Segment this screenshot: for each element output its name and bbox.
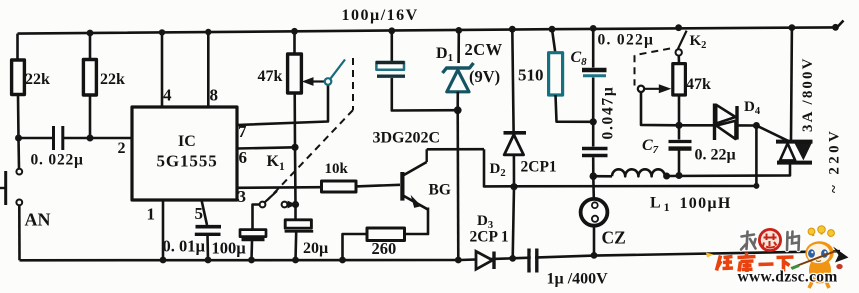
node contact circle wiper RP2	[638, 86, 644, 92]
node junction CZ ground	[591, 252, 598, 259]
wire 10k to base	[356, 185, 400, 187]
wire capacitor to IC pin 2	[63, 137, 132, 140]
diac D4	[715, 104, 738, 141]
wire C7 bottom to L1 wire	[678, 151, 681, 176]
switch K1 contacts and arm	[260, 191, 296, 208]
watermark red badge with xin	[758, 228, 782, 252]
node junction pin2 net left	[15, 135, 22, 142]
wire dashed mechanical link diagonal	[268, 110, 354, 200]
svg-text:47k: 47k	[686, 76, 711, 93]
node junction C7 L1 wire	[676, 172, 683, 179]
svg-text:3A /800V: 3A /800V	[800, 56, 816, 132]
capacitor C7 0.22u plates	[669, 142, 692, 149]
capacitor 100u timing plates	[240, 230, 266, 240]
node junction K2 rail	[675, 24, 682, 31]
wire 510 bottom to C8 column	[556, 95, 594, 122]
svg-text:10k: 10k	[325, 161, 349, 177]
wire CZ top lead	[592, 176, 595, 199]
node junction CZ L1	[590, 172, 598, 180]
inductor L1 100uH coil	[612, 169, 665, 176]
svg-text:1µ /400V: 1µ /400V	[547, 271, 609, 288]
potentiometer RP2 47k body	[673, 64, 686, 95]
watermark logo dzsc	[706, 226, 849, 288]
svg-text:2CP1: 2CP1	[521, 159, 557, 176]
wire CZ bottom lead	[593, 226, 596, 256]
wire R1 bottom to node	[17, 95, 20, 139]
node junction pin1 ground	[160, 257, 167, 264]
node junction pot C7 diac	[675, 122, 682, 129]
wire pin 6 to timing node	[237, 147, 295, 148]
svg-text:2CW: 2CW	[465, 40, 503, 59]
wire R2 bottom lead	[89, 95, 92, 138]
diode D1 zener 2CW	[443, 63, 474, 92]
node junction filter cap top rail	[388, 27, 395, 34]
resistor R5 260 body	[367, 228, 405, 241]
wire 100u to ground	[250, 241, 253, 260]
node junction zener bottom	[454, 106, 462, 114]
wire wiper down to C7 node	[641, 92, 679, 125]
capacitor 1u/400V plates	[529, 249, 537, 273]
svg-text:0. 01µ: 0. 01µ	[163, 237, 206, 256]
wire filter cap top lead	[390, 31, 393, 62]
svg-text:CZ: CZ	[602, 228, 626, 248]
wire pin 7 to pot wiper column	[237, 85, 328, 125]
svg-text:100µ: 100µ	[212, 239, 247, 258]
node junction D2 ground rail	[509, 255, 516, 262]
socket CZ	[581, 199, 608, 226]
svg-text:0. 022µ: 0. 022µ	[598, 32, 655, 49]
wire D1 top lead	[457, 30, 460, 63]
node junction 510 C8	[590, 118, 597, 125]
wire 260 to ground	[343, 234, 368, 260]
wire D2 cathode to rail	[512, 29, 513, 131]
node terminal ~220V top right	[832, 21, 843, 31]
svg-text:(9V): (9V)	[469, 67, 500, 86]
node junction R2 top	[87, 30, 94, 37]
potentiometer RP1 47k body	[288, 54, 302, 93]
svg-text:5: 5	[195, 204, 204, 223]
node junction 100u ground	[248, 257, 255, 264]
svg-text:www.dzsc.com: www.dzsc.com	[738, 269, 838, 286]
svg-text:260: 260	[372, 239, 397, 258]
svg-text:3: 3	[238, 187, 247, 206]
svg-text:AN: AN	[25, 210, 51, 230]
svg-text:4: 4	[163, 86, 172, 105]
wire collector to right	[427, 148, 484, 151]
node junction D2 top rail	[509, 26, 516, 33]
svg-text:0. 022µ: 0. 022µ	[31, 152, 84, 169]
node junction R2 pin2 wire	[87, 135, 94, 142]
svg-text:8: 8	[210, 86, 219, 105]
node junction K1 timing column	[292, 201, 299, 208]
svg-text:~ 220V: ~ 220V	[827, 128, 843, 193]
wire pin 8 to rail	[207, 32, 210, 107]
svg-text:100µ/16V: 100µ/16V	[342, 7, 419, 24]
node junction 0.01u ground	[205, 257, 212, 264]
watermark red text weikuyixia	[717, 253, 794, 273]
node junction 260 ground	[339, 257, 346, 264]
wire 20u to ground	[294, 232, 297, 260]
node junction pot top rail	[291, 28, 298, 35]
svg-text:47k: 47k	[258, 68, 283, 85]
wire triac top lead	[790, 28, 794, 140]
capacitor C8 plates	[582, 70, 607, 76]
capacitor 0.047u plates	[582, 149, 608, 156]
wire L1 to triac MT	[667, 164, 790, 176]
wire collector long run to gate column	[484, 126, 756, 187]
wire top supply rail	[18, 27, 834, 33]
node junction L1 right	[663, 173, 670, 180]
wire D2 anode down	[513, 155, 514, 259]
resistor R1 22k body	[12, 60, 25, 95]
node junction zener column ground	[455, 257, 462, 264]
wire C8 top lead	[592, 28, 595, 67]
capacitor 0.01u plates	[195, 227, 221, 235]
svg-text:BG: BG	[429, 182, 451, 199]
svg-text:510: 510	[518, 66, 544, 85]
node contact circle wiper K1b	[325, 78, 332, 85]
node junction pin4 rail	[159, 29, 165, 35]
svg-text:22k: 22k	[25, 71, 50, 88]
wire L1 left lead	[593, 175, 612, 178]
svg-text:IC: IC	[178, 133, 196, 150]
node junction pin6 timing node	[291, 144, 298, 151]
capacitor C2 100u/16V plates	[376, 62, 405, 76]
node junction triac rail	[789, 24, 796, 31]
potentiometer RP2 wiper arrow	[644, 84, 671, 93]
node junction D2 gate wire	[510, 183, 517, 190]
node junction C8 top rail	[590, 25, 597, 32]
watermark text pian (piece)	[787, 232, 799, 251]
svg-text:0.047µ: 0.047µ	[600, 85, 617, 139]
wire 510 top lead	[552, 29, 555, 53]
wire diac to gate node	[737, 124, 756, 127]
wire pin 4 to rail	[161, 32, 164, 107]
wire pin 1 to ground	[162, 200, 165, 260]
wire K1b arm (teal)	[330, 60, 345, 79]
wire node to capacitor C 0.022u	[19, 137, 53, 140]
capacitor 20u plates	[285, 220, 314, 232]
wire emitter down to 260	[405, 208, 429, 235]
wire K1 node to cap 20u	[294, 205, 297, 220]
wire 0.047u bottom to CZ node	[592, 157, 595, 176]
node junction 20u ground	[292, 257, 299, 264]
capacitor C1 0.022u plates	[54, 126, 63, 150]
diode D2 2CP1	[504, 133, 527, 155]
svg-text:2CP 1: 2CP 1	[470, 229, 509, 246]
watermark text zhao (find)	[741, 232, 756, 250]
wire pin 5 down	[202, 200, 208, 225]
node junction 510 top rail	[549, 26, 556, 33]
svg-text:22k: 22k	[100, 71, 125, 88]
watermark mascot	[706, 226, 849, 288]
wire K2 to pot top	[677, 56, 680, 64]
svg-text:1: 1	[147, 205, 156, 224]
wire filter cap bottom to zener node	[392, 78, 458, 111]
wire gate to triac	[756, 126, 789, 142]
node junction gate	[753, 122, 760, 129]
potentiometer RP1 47k top lead	[293, 31, 296, 54]
wire K1 left contact to cap 100u	[253, 205, 260, 230]
op-amp U1 IC 5G1555 box	[132, 107, 237, 200]
wire pin 3 output to 10k	[237, 186, 321, 189]
resistor R2 22k body	[83, 60, 96, 96]
svg-text:20µ: 20µ	[303, 240, 328, 257]
svg-text:3DG202C: 3DG202C	[373, 130, 441, 147]
switch K2	[676, 31, 687, 56]
wire D1 bottom lead	[456, 92, 459, 110]
potentiometer RP1 wiper arrow	[302, 77, 325, 86]
node junction pin8 rail	[205, 29, 211, 35]
wire button to ground rail	[18, 206, 21, 261]
wire 0.01u to ground	[206, 235, 209, 260]
wire dashed mechanical link vertical	[352, 58, 354, 110]
wire pot bottom lead	[678, 95, 681, 125]
resistor R6 510 body (teal)	[549, 53, 563, 95]
wire dashed mechanical link K2	[635, 49, 671, 86]
node junction collector wire end	[753, 183, 759, 189]
wire C8 bottom through junction to 0.047u	[592, 78, 595, 147]
svg-text:0. 22µ: 0. 22µ	[695, 147, 736, 164]
diode D3 2CP1 in ground rail	[476, 251, 494, 269]
svg-text:7: 7	[238, 122, 247, 141]
transistor Q1 BG 3DG202C	[402, 149, 428, 210]
node junction D1 top rail	[455, 27, 462, 34]
wire pot bottom through pin6 node down to K1	[293, 93, 296, 205]
wire left vertical top	[16, 34, 19, 60]
pushbutton AN	[0, 169, 22, 206]
triac 3A/800V	[776, 142, 813, 163]
svg-text:6: 6	[239, 148, 248, 167]
svg-text:5G1555: 5G1555	[157, 152, 218, 171]
svg-text:2: 2	[118, 140, 126, 157]
resistor R4 10k body	[322, 181, 357, 192]
wire C7 top lead	[678, 125, 681, 139]
wire node to button	[17, 138, 20, 169]
svg-text:100µH: 100µH	[680, 195, 732, 212]
wire zener column to ground	[456, 110, 459, 260]
wire node to diac	[679, 124, 715, 127]
wire R2 top lead	[89, 33, 92, 60]
wire bottom ground rail	[20, 251, 841, 260]
